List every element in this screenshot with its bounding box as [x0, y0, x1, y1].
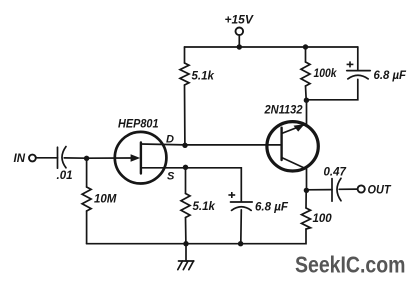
wire C4 to OUT: [339, 188, 357, 190]
node gate junction: [84, 156, 89, 161]
svg-text:OUT: OUT: [368, 185, 392, 197]
wire base line from D node: [185, 144, 282, 146]
transistor Q1 2N1132 body: [267, 122, 318, 171]
wire gate junction to JFET: [87, 157, 132, 159]
svg-text:6.8 µF: 6.8 µF: [255, 201, 289, 213]
resistor R5 100: [302, 208, 311, 229]
svg-text:5.1k: 5.1k: [193, 201, 216, 213]
svg-text:.01: .01: [57, 170, 73, 182]
resistor R1 5.1k: [180, 63, 189, 85]
wire IN to C1: [36, 157, 58, 159]
svg-text:6.8 µF: 6.8 µF: [374, 70, 407, 82]
svg-text:0.47: 0.47: [324, 167, 347, 179]
node 100k/cap/emitter junction: [304, 98, 309, 103]
capacitor C2 curved plate: [348, 75, 368, 79]
polarity + (C2): [347, 61, 354, 67]
node top rail to 100k junction: [303, 44, 308, 49]
wire left branch upper: [184, 47, 186, 63]
U1 gate arrow: [131, 154, 141, 161]
svg-text:D: D: [166, 134, 174, 146]
node ground junction: [183, 241, 188, 246]
wire R2 to bottom rail: [86, 211, 88, 244]
capacitor C4 curved plate: [337, 178, 341, 201]
svg-text:2N1132: 2N1132: [264, 105, 304, 117]
wire rail to 100k: [305, 47, 307, 62]
svg-text:HEP801: HEP801: [118, 119, 159, 131]
wire emitter node to R5: [305, 190, 307, 208]
polarity + (C3): [228, 192, 235, 198]
capacitor C3 curved plate: [232, 207, 252, 211]
capacitor C1 .01 left plate: [57, 147, 59, 168]
svg-text:5.1k: 5.1k: [192, 71, 215, 83]
transistor Q1 base bar: [280, 128, 282, 160]
transistor Q1 emitter lead: [282, 100, 307, 133]
ground: [178, 244, 194, 270]
capacitor C4 0.47 left plate: [331, 179, 333, 202]
node emitter junction: [304, 188, 309, 193]
wire R1 to drain node: [184, 85, 186, 145]
svg-text:SeekIC.com: SeekIC.com: [295, 252, 406, 278]
transistor Q1 emitter arrow: [294, 124, 305, 131]
terminal OUT: [358, 185, 365, 192]
transistor Q1 collector lead: [282, 158, 307, 191]
U1 channel bar: [140, 143, 142, 174]
U1 drain lead: [141, 143, 185, 146]
wire top rail: [185, 46, 358, 48]
wire S to bypass cap corner: [186, 168, 242, 202]
svg-text:10M: 10M: [94, 194, 117, 206]
svg-text:IN: IN: [14, 153, 26, 165]
node S junction: [183, 165, 188, 170]
capacitor C1 curved plate: [62, 147, 66, 168]
wire C2 down and left to junction: [306, 79, 357, 99]
wire rail right corner down to C2: [357, 47, 359, 70]
wire gate node down to R2: [86, 158, 88, 187]
wire bottom rail: [87, 229, 306, 244]
terminal IN: [29, 155, 36, 162]
svg-text:100k: 100k: [314, 68, 338, 80]
capacitor C3 6.8uF top plate: [231, 201, 253, 203]
wire 100k to emitter node: [305, 86, 308, 100]
resistor R3 5.1k: [181, 194, 190, 218]
wire C3 to bottom rail: [240, 210, 243, 244]
capacitor C2 6.8uF top plate: [347, 70, 370, 72]
svg-text:S: S: [167, 171, 175, 183]
node D junction: [182, 143, 187, 148]
svg-text:100: 100: [313, 213, 333, 225]
wire +15V stem: [238, 35, 240, 47]
node +15V junction: [237, 44, 242, 49]
wire S junction down to R3: [185, 168, 187, 194]
wire C1 to gate node: [64, 157, 86, 159]
resistor R2 10M: [82, 187, 91, 211]
svg-text:+15V: +15V: [225, 13, 254, 27]
node C3 bottom junction: [238, 241, 243, 246]
resistor R4 100k: [301, 62, 310, 86]
wire emitter node to C4: [306, 189, 332, 191]
wire R3 to bottom rail: [185, 218, 187, 244]
op-amp U1 HEP801 JFET body: [115, 132, 167, 184]
power terminal +15V: [236, 28, 244, 36]
U1 source lead: [141, 167, 186, 169]
